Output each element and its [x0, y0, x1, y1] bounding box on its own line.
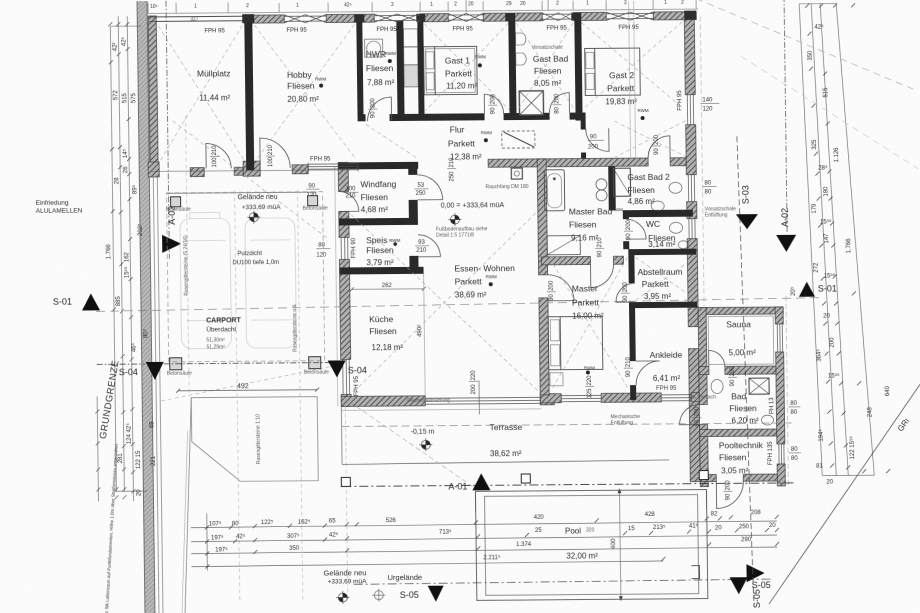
door windfang east — [417, 175, 442, 200]
bed master — [548, 316, 603, 369]
kueche east edge line — [424, 273, 426, 397]
wall top north — [244, 15, 284, 23]
left dimension chains — [92, 16, 147, 501]
gastbad2 shower — [613, 168, 630, 196]
doors — [205, 91, 743, 512]
bathtub master bad — [544, 170, 565, 211]
wall hobby west — [244, 15, 254, 170]
bed gast1 — [424, 46, 478, 94]
door wc — [626, 219, 646, 239]
gastbad2 sink — [669, 182, 682, 193]
fence strip west (Einfriedung) — [137, 1, 163, 613]
boundary dashes top right — [696, 0, 917, 93]
master bad sinks — [596, 179, 607, 190]
carport posts — [168, 196, 321, 370]
wall corridor north — [358, 114, 366, 121]
pool — [475, 490, 707, 601]
bottom dimension chains — [190, 489, 777, 571]
wall west outer — [148, 16, 158, 171]
wall south master/ankleide — [540, 394, 561, 403]
door muellplatz — [206, 143, 231, 168]
wc south — [628, 249, 696, 256]
door gast2 (west wall) — [586, 128, 609, 151]
door ankleide — [636, 361, 660, 385]
door windfang entry — [339, 191, 359, 211]
sight line dashed — [343, 396, 475, 489]
bed gast2 — [585, 48, 641, 95]
door abstellraum — [616, 283, 635, 302]
survey crosses — [247, 209, 466, 605]
window labels FPH — [204, 24, 776, 470]
section A-01 — [342, 483, 794, 487]
door HWR->flur — [367, 97, 391, 121]
roof overhang dash over terrace — [342, 423, 792, 427]
wall west living — [338, 162, 348, 191]
left chain labels (rotated) — [103, 36, 157, 496]
section S-05 — [354, 579, 774, 584]
washer HWR — [365, 39, 383, 57]
gastbad shower — [519, 91, 543, 115]
wall Gast1 east — [508, 20, 516, 113]
door sauna — [709, 350, 725, 366]
closet HWR/gast1 — [403, 29, 417, 47]
section S-01 right — [799, 282, 815, 297]
wall hobby/HWR — [356, 14, 363, 121]
carport dashed outline — [167, 192, 325, 362]
top wall junction blocks — [242, 11, 696, 24]
wc fixtures — [669, 222, 682, 233]
forecourt polygon — [191, 397, 318, 482]
492 dimension — [178, 390, 317, 391]
interior walls (solid) — [244, 12, 586, 170]
flur attic ladder — [502, 131, 535, 148]
wall master east — [628, 255, 634, 283]
sauna bench — [708, 316, 774, 365]
windfang north — [338, 162, 418, 170]
door bad — [679, 405, 699, 425]
section A-03 — [166, 1, 169, 259]
sauna block walls — [698, 307, 783, 315]
grundgrenze diagonal — [766, 383, 920, 604]
speis south — [340, 267, 424, 275]
room labels — [197, 46, 764, 479]
tick marks left chains — [90, 22, 135, 499]
door pooltechnik — [716, 481, 743, 508]
abstellraum south — [629, 302, 697, 309]
vertical dashed guides — [186, 114, 348, 600]
door hobby — [260, 138, 290, 168]
wc west — [623, 210, 629, 219]
fixtures — [364, 26, 774, 428]
right chain labels — [412, 23, 892, 489]
door gast2 -> gastbad2 — [648, 136, 670, 158]
windows south master / ankleide — [561, 395, 601, 401]
gastbad sinks — [515, 33, 526, 45]
terrasse outline — [340, 406, 343, 464]
terrace sliding door — [425, 397, 541, 404]
door masterbad->master — [590, 264, 613, 287]
door gastbad — [549, 93, 569, 113]
dashed ceiling diagonals in rooms — [156, 22, 697, 401]
wall east outer — [684, 20, 695, 95]
windows top wall — [148, 11, 784, 469]
gastbad2 south — [623, 210, 693, 218]
chimney — [511, 168, 522, 179]
door gast1 — [484, 94, 503, 113]
roofline above top wall — [146, 9, 698, 13]
gelaende line at carport top — [167, 192, 317, 193]
small door dimension labels — [209, 91, 801, 504]
wall HWR east + closet + Gast1 west — [396, 21, 404, 114]
wall master west (hatched) — [537, 158, 625, 395]
south edge piers Muellplatz/Hobby — [148, 162, 159, 177]
wall south living — [341, 396, 425, 407]
exterior walls (hatched) — [146, 11, 785, 491]
windfang east — [408, 162, 417, 175]
bad fixtures — [711, 379, 723, 393]
door speis — [418, 235, 440, 257]
window hobby south — [308, 162, 358, 171]
windows east wall — [687, 95, 693, 125]
extension lines gast2 — [629, 1, 631, 157]
dim 262 kitchen — [352, 288, 424, 291]
top edge small dimension marks — [148, 0, 696, 15]
cars — [180, 212, 297, 349]
section S-03 — [737, 136, 754, 606]
wall GastBad east — [574, 20, 582, 121]
section A-02 — [784, 0, 787, 234]
windfang south — [339, 218, 418, 226]
muellplatz top thin edge — [149, 16, 246, 21]
RWM smoke detector marks — [315, 49, 653, 377]
windows sauna block east — [777, 324, 782, 352]
right dimension chains (slanted) — [799, 3, 874, 476]
door master bedroom — [548, 275, 574, 301]
master bad shower — [547, 236, 580, 255]
windows west wall — [341, 237, 348, 259]
gastbad2 west — [608, 166, 616, 210]
